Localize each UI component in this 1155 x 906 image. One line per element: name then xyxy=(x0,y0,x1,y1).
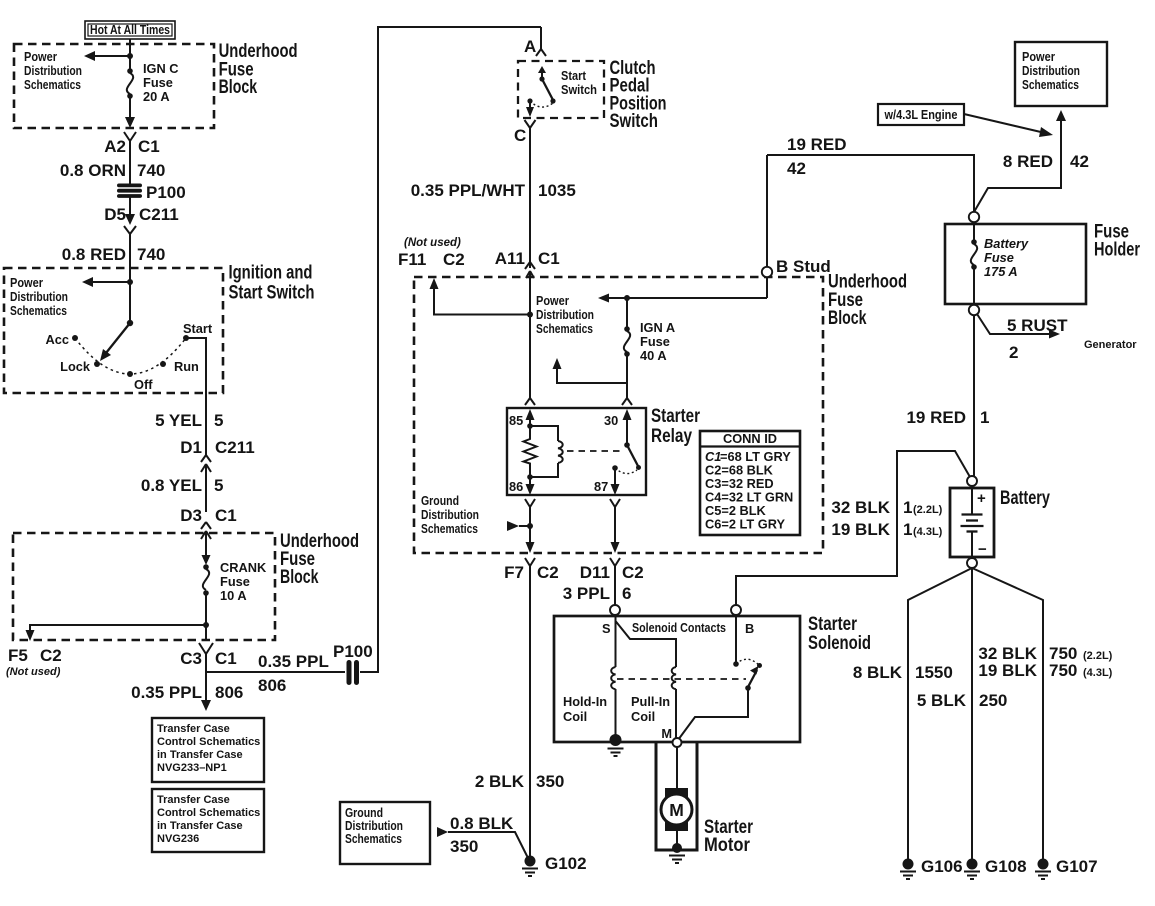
svg-text:87: 87 xyxy=(594,479,608,494)
svg-text:19 BLK: 19 BLK xyxy=(831,520,890,539)
underhood fuse block 1 label xyxy=(219,41,298,98)
svg-text:C211: C211 xyxy=(139,205,179,224)
wire down to transfer case schematics xyxy=(131,672,243,711)
svg-text:A2: A2 xyxy=(104,137,126,156)
relay pin labels xyxy=(509,413,618,494)
fuse holder label xyxy=(1094,222,1140,261)
terminal M xyxy=(661,726,681,747)
wire label 5 YEL 5 xyxy=(155,411,223,430)
arrow to power distribution schematics xyxy=(84,51,130,61)
svg-text:Power: Power xyxy=(1022,49,1055,64)
solenoid internal ground xyxy=(608,734,624,756)
wire 19 RED 42 from B stud to fuse holder xyxy=(767,135,974,212)
svg-text:0.35 PPL: 0.35 PPL xyxy=(131,683,202,702)
connector A11/C1 xyxy=(495,249,560,283)
svg-text:in Transfer Case: in Transfer Case xyxy=(157,749,243,761)
svg-text:Switch: Switch xyxy=(610,111,659,132)
svg-text:F7: F7 xyxy=(504,563,524,582)
wire 87 exits fuse block (arrow) xyxy=(611,542,620,553)
svg-text:G108: G108 xyxy=(985,857,1027,876)
svg-text:Distribution: Distribution xyxy=(421,507,479,522)
svg-text:Start: Start xyxy=(183,321,213,336)
svg-text:Schematics: Schematics xyxy=(421,521,478,536)
svg-text:IGN C: IGN C xyxy=(143,61,179,76)
svg-text:Switch: Switch xyxy=(561,82,597,97)
svg-text:(Not used): (Not used) xyxy=(6,666,61,678)
wire below CRANK fuse xyxy=(205,593,207,640)
ground distribution schematics reference (fuse block 3) xyxy=(421,493,479,536)
ignition and start switch (dashed box) xyxy=(4,268,223,393)
svg-text:Generator: Generator xyxy=(1084,339,1137,351)
fuse CRANK 10 A xyxy=(203,560,267,603)
connector C3/C1 xyxy=(180,643,236,672)
svg-text:5 RUST: 5 RUST xyxy=(1007,316,1068,335)
ground distribution pointer xyxy=(507,521,533,531)
fuse IGN C 20 A xyxy=(127,61,179,104)
svg-text:85: 85 xyxy=(509,413,523,428)
connector A xyxy=(536,49,546,56)
terminal circle battery negative xyxy=(967,558,977,568)
svg-text:Off: Off xyxy=(134,377,153,392)
svg-text:10 A: 10 A xyxy=(220,588,247,603)
svg-text:C2: C2 xyxy=(40,646,62,665)
wire label 0.8 ORN 740 xyxy=(60,161,166,180)
svg-text:D3: D3 xyxy=(180,506,202,525)
transfer case schematics box NVG233 xyxy=(152,718,264,782)
svg-text:Motor: Motor xyxy=(704,835,751,856)
svg-text:Block: Block xyxy=(280,567,319,588)
svg-text:D11: D11 xyxy=(580,563,610,582)
hold-in coil xyxy=(563,667,616,738)
power distribution schematics reference (ignition switch) xyxy=(10,275,68,318)
svg-text:0.35 PPL: 0.35 PPL xyxy=(258,652,329,671)
connector A2/C1 xyxy=(104,132,159,184)
wire branch to F5 with down arrow xyxy=(26,625,207,641)
svg-text:350: 350 xyxy=(450,837,478,856)
svg-text:30: 30 xyxy=(604,413,618,428)
svg-text:D1: D1 xyxy=(180,438,202,457)
svg-text:NVG236: NVG236 xyxy=(157,833,199,845)
node junction to F5 branch xyxy=(203,622,209,628)
svg-text:NVG233–NP1: NVG233–NP1 xyxy=(157,762,227,774)
switch blade arrow to Lock xyxy=(100,323,130,361)
wire from starter solenoid B to battery xyxy=(736,451,970,605)
svg-text:C1: C1 xyxy=(138,137,160,156)
svg-text:A11: A11 xyxy=(495,249,525,268)
svg-text:Solenoid: Solenoid xyxy=(808,633,871,654)
wire 19 RED 1 to battery xyxy=(906,315,989,476)
svg-text:F5: F5 xyxy=(8,646,28,665)
arrow w/4.3L Engine to 8 RED wire xyxy=(964,114,1053,137)
wire 8 RED 42 up to power distribution schematics xyxy=(974,110,1089,212)
relay pin 30 arrow and blade xyxy=(623,409,642,470)
svg-text:Relay: Relay xyxy=(651,426,692,447)
svg-text:Pull-In: Pull-In xyxy=(631,694,670,709)
svg-text:1: 1 xyxy=(980,408,989,427)
terminal S xyxy=(602,605,620,636)
svg-text:Hot At All Times: Hot At All Times xyxy=(90,22,170,37)
battery xyxy=(950,488,994,558)
underhood fuse block 3 label xyxy=(828,272,907,330)
svg-text:Battery: Battery xyxy=(984,236,1029,251)
wire branch right 0.35 PPL 806 to P100 xyxy=(206,27,541,695)
solenoid dashed actuation line xyxy=(617,678,746,680)
svg-text:P100: P100 xyxy=(146,183,186,202)
starter solenoid label xyxy=(808,614,871,654)
svg-text:C2: C2 xyxy=(443,250,465,269)
connector at relay 85 xyxy=(525,398,535,405)
svg-text:3 PPL: 3 PPL xyxy=(563,584,610,603)
terminal B xyxy=(731,605,754,636)
svg-text:Distribution: Distribution xyxy=(10,289,68,304)
svg-text:Start: Start xyxy=(561,68,587,83)
svg-text:Distribution: Distribution xyxy=(536,307,594,322)
svg-text:B Stud: B Stud xyxy=(776,257,831,276)
pull-in coil xyxy=(631,667,676,740)
svg-text:8 BLK: 8 BLK xyxy=(853,663,903,682)
power distribution schematics reference (fuse block 1) xyxy=(24,49,82,92)
wire + label D5/C211 xyxy=(104,196,178,225)
svg-text:1550: 1550 xyxy=(915,663,953,682)
starter motor M xyxy=(661,788,692,831)
svg-text:CRANK: CRANK xyxy=(220,560,267,575)
svg-text:Schematics: Schematics xyxy=(536,321,593,336)
svg-text:19 RED: 19 RED xyxy=(787,135,847,154)
starter solenoid box xyxy=(554,616,800,742)
relay pin 87 contact with dotted arc xyxy=(612,465,637,473)
svg-text:(4.3L): (4.3L) xyxy=(1083,667,1113,679)
terminal circle above fuse holder xyxy=(969,212,979,222)
wire label 0.8 RED 740 xyxy=(62,245,166,264)
svg-text:in Transfer Case: in Transfer Case xyxy=(157,820,243,832)
wire into switch xyxy=(129,236,131,323)
svg-text:B: B xyxy=(745,621,754,636)
relay pin 87 wire with arrow xyxy=(611,468,620,495)
wire label 8 BLK 1550 xyxy=(853,663,953,682)
relay control dashed line xyxy=(567,450,624,452)
svg-text:Schematics: Schematics xyxy=(10,303,67,318)
svg-text:20 A: 20 A xyxy=(143,89,170,104)
svg-text:C1: C1 xyxy=(538,249,560,268)
svg-text:5 YEL: 5 YEL xyxy=(155,411,202,430)
starter relay label xyxy=(651,406,700,447)
svg-text:S: S xyxy=(602,621,611,636)
starter motor frame xyxy=(656,742,697,850)
svg-text:G102: G102 xyxy=(545,854,587,873)
arrow to F11 inside fuse block xyxy=(430,278,531,315)
node junction at fuse tap xyxy=(127,53,133,59)
node at arrow tap xyxy=(127,279,133,285)
svg-text:42: 42 xyxy=(787,159,806,178)
arrow into CRANK fuse xyxy=(202,555,211,565)
svg-text:0.8 BLK: 0.8 BLK xyxy=(450,814,514,833)
switch position labels xyxy=(46,321,213,392)
svg-text:806: 806 xyxy=(258,676,286,695)
svg-text:Transfer Case: Transfer Case xyxy=(157,794,230,806)
svg-text:Starter: Starter xyxy=(808,614,857,635)
svg-text:−: − xyxy=(978,541,987,558)
svg-text:Schematics: Schematics xyxy=(24,77,81,92)
svg-text:750: 750 xyxy=(1049,661,1077,680)
connector below relay 86 xyxy=(525,499,535,543)
svg-text:2: 2 xyxy=(1009,343,1018,362)
connector D3/C1 xyxy=(180,506,236,558)
svg-text:5: 5 xyxy=(214,411,223,430)
wire 86 exits fuse block (arrow) xyxy=(526,542,535,553)
wire label 0.35 PPL/WHT 1035 xyxy=(411,181,576,200)
power distribution schematics reference (fuse block 3) xyxy=(536,293,594,336)
svg-text:1: 1 xyxy=(903,498,912,517)
svg-text:M: M xyxy=(669,800,684,820)
svg-text:Distribution: Distribution xyxy=(24,63,82,78)
svg-text:Power: Power xyxy=(536,293,569,308)
motor ground xyxy=(669,831,685,863)
terminal circle battery positive xyxy=(967,476,977,486)
wire label 5 BLK 250 xyxy=(917,691,1008,710)
wire M to motor xyxy=(676,747,678,790)
svg-text:F11: F11 xyxy=(398,250,426,269)
svg-text:86: 86 xyxy=(509,479,523,494)
clutch pedal position switch label xyxy=(610,58,667,132)
start switch symbol xyxy=(526,66,597,117)
wire from Start contact xyxy=(186,338,206,455)
svg-text:w/4.3L Engine: w/4.3L Engine xyxy=(884,107,958,122)
svg-text:5: 5 xyxy=(214,476,223,495)
svg-text:Schematics: Schematics xyxy=(345,831,402,846)
wire from B stud with arrow to power distribution xyxy=(598,294,767,303)
svg-text:C1: C1 xyxy=(215,506,237,525)
svg-text:32 BLK: 32 BLK xyxy=(831,498,890,517)
svg-text:Fuse: Fuse xyxy=(984,250,1014,265)
svg-text:Coil: Coil xyxy=(563,709,587,724)
svg-text:8 RED: 8 RED xyxy=(1003,152,1053,171)
svg-text:2 BLK: 2 BLK xyxy=(475,772,525,791)
terminal B stud xyxy=(762,257,831,277)
svg-text:0.8 RED: 0.8 RED xyxy=(62,245,126,264)
clutch pedal position switch (dashed box) xyxy=(518,61,604,118)
connector F7/C2 xyxy=(504,558,559,856)
svg-text:Lock: Lock xyxy=(60,359,91,374)
switch position arc (dashed) xyxy=(75,338,186,374)
svg-text:C3: C3 xyxy=(180,649,202,668)
svg-text:A: A xyxy=(524,37,536,56)
svg-text:Run: Run xyxy=(174,359,199,374)
fuse IGN A 40 A xyxy=(624,298,675,363)
conn id table xyxy=(700,431,800,535)
svg-text:C: C xyxy=(514,126,526,145)
underhood fuse block 1 (dashed box) xyxy=(14,44,214,128)
relay pin 85 arrow xyxy=(526,409,535,425)
wire A into clutch switch xyxy=(540,27,542,49)
connector F11/C2 (not used) xyxy=(398,237,465,269)
wire B stud down and to IGN A xyxy=(766,155,768,298)
connector P100 (inline, horizontal capsules) xyxy=(117,183,186,202)
svg-text:Power: Power xyxy=(10,275,43,290)
wire from Hot At All Times down xyxy=(129,39,131,70)
solenoid S wiring xyxy=(616,615,677,667)
svg-text:P100: P100 xyxy=(333,642,373,661)
svg-text:G107: G107 xyxy=(1056,857,1098,876)
svg-text:+: + xyxy=(977,490,986,507)
svg-text:Control Schematics: Control Schematics xyxy=(157,807,260,819)
svg-text:Distribution: Distribution xyxy=(1022,63,1080,78)
svg-text:175 A: 175 A xyxy=(984,264,1018,279)
wire fuse to box edge with arrow xyxy=(125,96,135,128)
svg-text:Starter: Starter xyxy=(651,406,700,427)
ground G106 xyxy=(900,857,963,879)
wire label 2 BLK 350 xyxy=(475,772,565,791)
svg-text:C2: C2 xyxy=(537,563,559,582)
svg-text:350: 350 xyxy=(536,772,564,791)
svg-text:Power: Power xyxy=(24,49,57,64)
main wire down to starter relay 85 xyxy=(529,283,531,398)
branch arrow up (power distribution tap) xyxy=(553,358,628,383)
svg-text:(Not used): (Not used) xyxy=(404,237,461,249)
svg-text:Acc: Acc xyxy=(46,332,69,347)
svg-text:D5: D5 xyxy=(104,205,126,224)
svg-text:Solenoid Contacts: Solenoid Contacts xyxy=(632,620,726,635)
battery negative fan-out wires xyxy=(908,568,1043,859)
ground G107 xyxy=(1035,857,1098,879)
Hot At All Times label box xyxy=(85,21,175,39)
svg-text:250: 250 xyxy=(979,691,1007,710)
terminal circle below fuse holder xyxy=(969,305,979,315)
svg-text:0.8 ORN: 0.8 ORN xyxy=(60,161,126,180)
solenoid contact B wiring xyxy=(678,615,762,740)
connector at relay 30 xyxy=(622,398,632,405)
svg-text:(2.2L): (2.2L) xyxy=(913,504,943,516)
svg-text:CONN ID: CONN ID xyxy=(723,431,777,446)
connector D1/C211 xyxy=(180,438,254,512)
svg-text:G106: G106 xyxy=(921,857,963,876)
svg-text:IGN A: IGN A xyxy=(640,320,675,335)
wire 5 RUST 2 to generator xyxy=(977,314,1137,362)
svg-text:740: 740 xyxy=(137,161,165,180)
wire IGN A fuse to relay 30 xyxy=(626,354,628,398)
wire labels 32 BLK 750 / 19 BLK 750 xyxy=(978,644,1112,680)
svg-text:0.8 YEL: 0.8 YEL xyxy=(141,476,202,495)
svg-text:Start Switch: Start Switch xyxy=(229,283,315,304)
node at switch pivot xyxy=(127,320,133,326)
switch position contacts xyxy=(72,335,189,377)
starter motor label xyxy=(704,817,753,856)
underhood fuse block 2 (dashed box) xyxy=(13,533,275,640)
ground G108 xyxy=(964,857,1027,879)
svg-text:Ignition and: Ignition and xyxy=(229,263,313,284)
svg-text:740: 740 xyxy=(137,245,165,264)
svg-text:Fuse: Fuse xyxy=(143,75,173,90)
svg-text:Ground: Ground xyxy=(421,493,459,508)
arrow to power distribution schematics (ignition) xyxy=(82,277,130,287)
svg-text:806: 806 xyxy=(215,683,243,702)
svg-text:C211: C211 xyxy=(215,438,255,457)
node junction F11 tap xyxy=(527,312,533,318)
svg-text:Hold-In: Hold-In xyxy=(563,694,607,709)
svg-text:Battery: Battery xyxy=(1000,488,1050,509)
svg-text:(2.2L): (2.2L) xyxy=(1083,650,1113,662)
svg-text:Block: Block xyxy=(219,77,258,98)
relay coil network (resistor + coil in parallel) xyxy=(524,423,563,480)
svg-text:Coil: Coil xyxy=(631,709,655,724)
svg-text:C2: C2 xyxy=(622,563,644,582)
ground G102 xyxy=(522,854,587,876)
wire 0.8 BLK 350 to G102 xyxy=(437,814,528,858)
svg-text:19 RED: 19 RED xyxy=(906,408,966,427)
ignition and start switch label xyxy=(229,263,315,304)
ground distribution schematics box xyxy=(340,802,430,864)
svg-text:5 BLK: 5 BLK xyxy=(917,691,967,710)
svg-text:1: 1 xyxy=(903,520,912,539)
svg-text:C1: C1 xyxy=(215,649,237,668)
fuse holder box xyxy=(945,224,1086,304)
relay pin 86 wire with arrow xyxy=(526,477,535,495)
svg-text:C6=2 LT GRY: C6=2 LT GRY xyxy=(705,517,785,532)
connector chevron below D5 xyxy=(124,226,136,268)
underhood fuse block 3 (big dashed box) xyxy=(414,277,823,553)
wire label 3 PPL 6 xyxy=(563,584,632,603)
svg-text:M: M xyxy=(661,726,672,741)
svg-text:Block: Block xyxy=(828,308,867,329)
wire label 0.8 YEL 5 xyxy=(141,476,224,495)
svg-text:Holder: Holder xyxy=(1094,240,1140,261)
connector P100 (inline, vertical capsules) xyxy=(333,642,373,685)
connector below relay 87 xyxy=(610,499,620,543)
svg-text:Transfer Case: Transfer Case xyxy=(157,723,230,735)
w/4.3L Engine box xyxy=(878,104,964,125)
svg-text:Fuse: Fuse xyxy=(220,574,250,589)
svg-text:Control Schematics: Control Schematics xyxy=(157,736,260,748)
svg-text:0.35 PPL/WHT: 0.35 PPL/WHT xyxy=(411,181,526,200)
svg-text:(4.3L): (4.3L) xyxy=(913,526,943,538)
starter relay box xyxy=(507,408,646,495)
power distribution schematics box (top right) xyxy=(1015,42,1107,106)
connector D11/C2 xyxy=(580,558,644,605)
svg-text:42: 42 xyxy=(1070,152,1089,171)
svg-text:Schematics: Schematics xyxy=(1022,77,1079,92)
fuse Battery 175 A xyxy=(971,222,1029,304)
svg-text:1035: 1035 xyxy=(538,181,576,200)
svg-text:Fuse: Fuse xyxy=(640,334,670,349)
wire labels 32 BLK 1 / 19 BLK 1 xyxy=(831,498,942,539)
underhood fuse block 2 label xyxy=(280,531,359,588)
transfer case schematics box NVG236 xyxy=(152,789,264,852)
svg-text:6: 6 xyxy=(622,584,631,603)
connector F5/C2 (not used) xyxy=(6,646,62,678)
connector C xyxy=(514,120,536,268)
svg-text:19 BLK: 19 BLK xyxy=(978,661,1037,680)
svg-text:40 A: 40 A xyxy=(640,348,667,363)
node junction IGN A tap xyxy=(624,295,630,301)
